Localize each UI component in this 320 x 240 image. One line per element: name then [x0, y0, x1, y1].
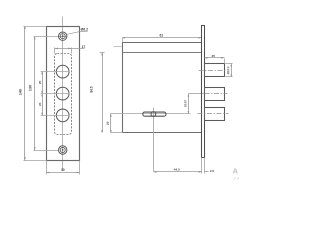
dimension 140 arrows — [24, 26, 26, 160]
bolt 3 (bottom) — [205, 108, 225, 121]
dimension 20 line (slot height above bottom) — [110, 114, 112, 133]
svg-text:2.5: 2.5 — [210, 169, 215, 173]
svg-text:17: 17 — [82, 45, 86, 49]
svg-text:140: 140 — [19, 89, 23, 95]
dimension 44.5 line (backset) — [154, 171, 202, 173]
extension line at top screw center — [34, 36, 67, 38]
svg-text:25: 25 — [38, 102, 42, 106]
center extension line circle 2 — [41, 93, 70, 95]
dimension 25 arrows — [205, 57, 225, 59]
svg-text:Ø6.2: Ø6.2 — [81, 27, 88, 31]
extension line top edge (for dim 140) — [24, 26, 47, 28]
svg-text:25: 25 — [211, 54, 215, 58]
dimension 84.5 extension ticks — [100, 52, 105, 54]
short extension stub at cover corner — [114, 46, 122, 48]
dimension 22.07 arrows — [188, 94, 190, 114]
svg-text:25: 25 — [38, 80, 42, 84]
dimension 22.07 line — [188, 94, 190, 114]
center extension line circle 3 — [41, 115, 70, 117]
dimension 20 arrows — [110, 114, 112, 133]
chained dimension arrows — [41, 72, 43, 116]
leader line for label O6.2 — [66, 31, 87, 34]
centerline (vertical) of faceplate — [62, 17, 64, 171]
lock case left edge — [122, 43, 124, 133]
hole circle 3 — [56, 109, 69, 122]
svg-text:22.07: 22.07 — [183, 100, 187, 107]
follower slot centerline horizontal — [111, 113, 191, 115]
bottom edge extension to left — [111, 132, 123, 134]
dimension O16.3 line — [231, 64, 233, 77]
dimension 44.5 arrows — [153, 171, 201, 173]
dimension 84.5 line (case height) — [102, 53, 104, 133]
bottom dimension 30 extension lines — [47, 161, 80, 175]
bottom screw hole inner circle — [60, 148, 65, 153]
svg-text:84.5: 84.5 — [90, 86, 94, 92]
follower slot centerline vertical — [153, 108, 155, 172]
top screw hole inner circle — [60, 34, 65, 39]
lock case top edge — [123, 42, 202, 44]
top screw hole center dot — [62, 35, 64, 37]
forend strip bottom extension lines — [202, 158, 205, 174]
svg-text:Ø16.3: Ø16.3 — [226, 66, 230, 74]
case left edge extension up to dim 61 — [122, 38, 124, 43]
dashed lock-body pocket (hidden outline) — [55, 54, 72, 135]
dimension O16.3 arrows — [230, 64, 232, 77]
hole circle 1 — [56, 65, 69, 78]
dimension 130 arrows — [34, 36, 36, 150]
svg-text:↗↗: ↗↗ — [233, 176, 240, 181]
hole circle 2 — [56, 87, 69, 100]
dimension 17 extension lines — [55, 48, 72, 54]
bolt 2 (middle) — [205, 88, 225, 101]
top screw hole outer circle — [59, 32, 67, 40]
bottom dimension 30 arrows — [47, 172, 80, 174]
chained dimension line between hole centers — [42, 72, 44, 116]
forend strip (side view of faceplate) — [202, 26, 205, 158]
follower slot (rounded) — [143, 112, 166, 116]
bolt 2 centerline — [205, 93, 228, 95]
bottom dimension 30 line — [47, 172, 80, 174]
svg-text:44.5: 44.5 — [174, 168, 180, 172]
dimension 22.07 extension (bolt2 centerline left) — [189, 93, 205, 95]
dimension 17 line (dashed pocket width) — [55, 48, 85, 50]
bolt 3 centerline — [198, 113, 229, 115]
svg-text:61: 61 — [159, 33, 163, 37]
follower center circle — [151, 112, 156, 117]
dimension 61 arrows — [122, 37, 202, 39]
bottom screw hole center dot — [62, 149, 64, 151]
dimension 25 extension — [224, 59, 226, 64]
center extension line circle 1 — [41, 71, 70, 73]
svg-text:30: 30 — [61, 168, 65, 172]
svg-text:130: 130 — [28, 85, 32, 91]
dimension 84.5 arrows — [101, 52, 103, 133]
svg-text:A: A — [233, 167, 239, 176]
bottom screw hole outer circle — [59, 146, 67, 154]
lock case bottom edge — [123, 132, 202, 134]
bolt 1 (top deadbolt) — [205, 64, 225, 77]
extension line at bottom screw center — [34, 150, 59, 152]
bolt 1 centerline — [199, 70, 227, 72]
dimension 17 arrows — [55, 48, 72, 50]
dimension 130 line (screw hole spacing) — [34, 37, 36, 151]
dimension 25 line (bolt throw) — [205, 57, 225, 59]
svg-text:20: 20 — [106, 121, 110, 125]
bolt 1 diameter extension lines — [225, 64, 233, 77]
cover plate top line — [123, 52, 202, 54]
dimension 61 line (case depth) — [123, 37, 202, 39]
dimension 2.5 stub line (strip thickness) — [205, 171, 209, 173]
extension line bottom edge (for dim 140) — [24, 160, 47, 162]
dimension 140 line — [24, 27, 26, 161]
faceplate outline — [47, 27, 80, 161]
